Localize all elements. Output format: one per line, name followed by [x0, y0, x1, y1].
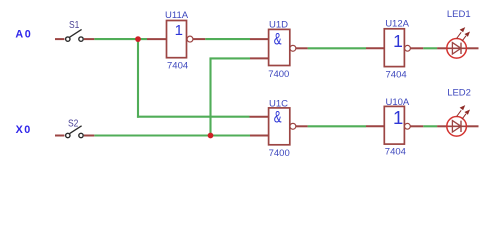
svg-text:U12A: U12A: [385, 19, 409, 30]
svg-text:U10A: U10A: [386, 97, 410, 108]
svg-text:7404: 7404: [167, 60, 188, 71]
svg-text:&: &: [274, 108, 282, 126]
svg-text:7400: 7400: [268, 69, 289, 80]
svg-text:U1D: U1D: [269, 19, 288, 30]
svg-text:1: 1: [393, 31, 403, 51]
svg-text:7404: 7404: [385, 147, 406, 158]
svg-text:1: 1: [175, 22, 183, 39]
svg-text:U1C: U1C: [269, 98, 288, 109]
svg-text:X0: X0: [16, 124, 32, 136]
svg-text:1: 1: [393, 107, 403, 128]
svg-text:7404: 7404: [386, 69, 407, 80]
svg-text:U11A: U11A: [165, 10, 189, 21]
svg-text:S2: S2: [68, 118, 79, 129]
svg-text:A0: A0: [15, 29, 32, 41]
svg-text:&: &: [274, 31, 282, 49]
svg-text:S1: S1: [69, 20, 80, 31]
svg-text:7400: 7400: [269, 148, 290, 159]
svg-text:LED1: LED1: [447, 9, 471, 20]
svg-text:LED2: LED2: [447, 88, 471, 99]
